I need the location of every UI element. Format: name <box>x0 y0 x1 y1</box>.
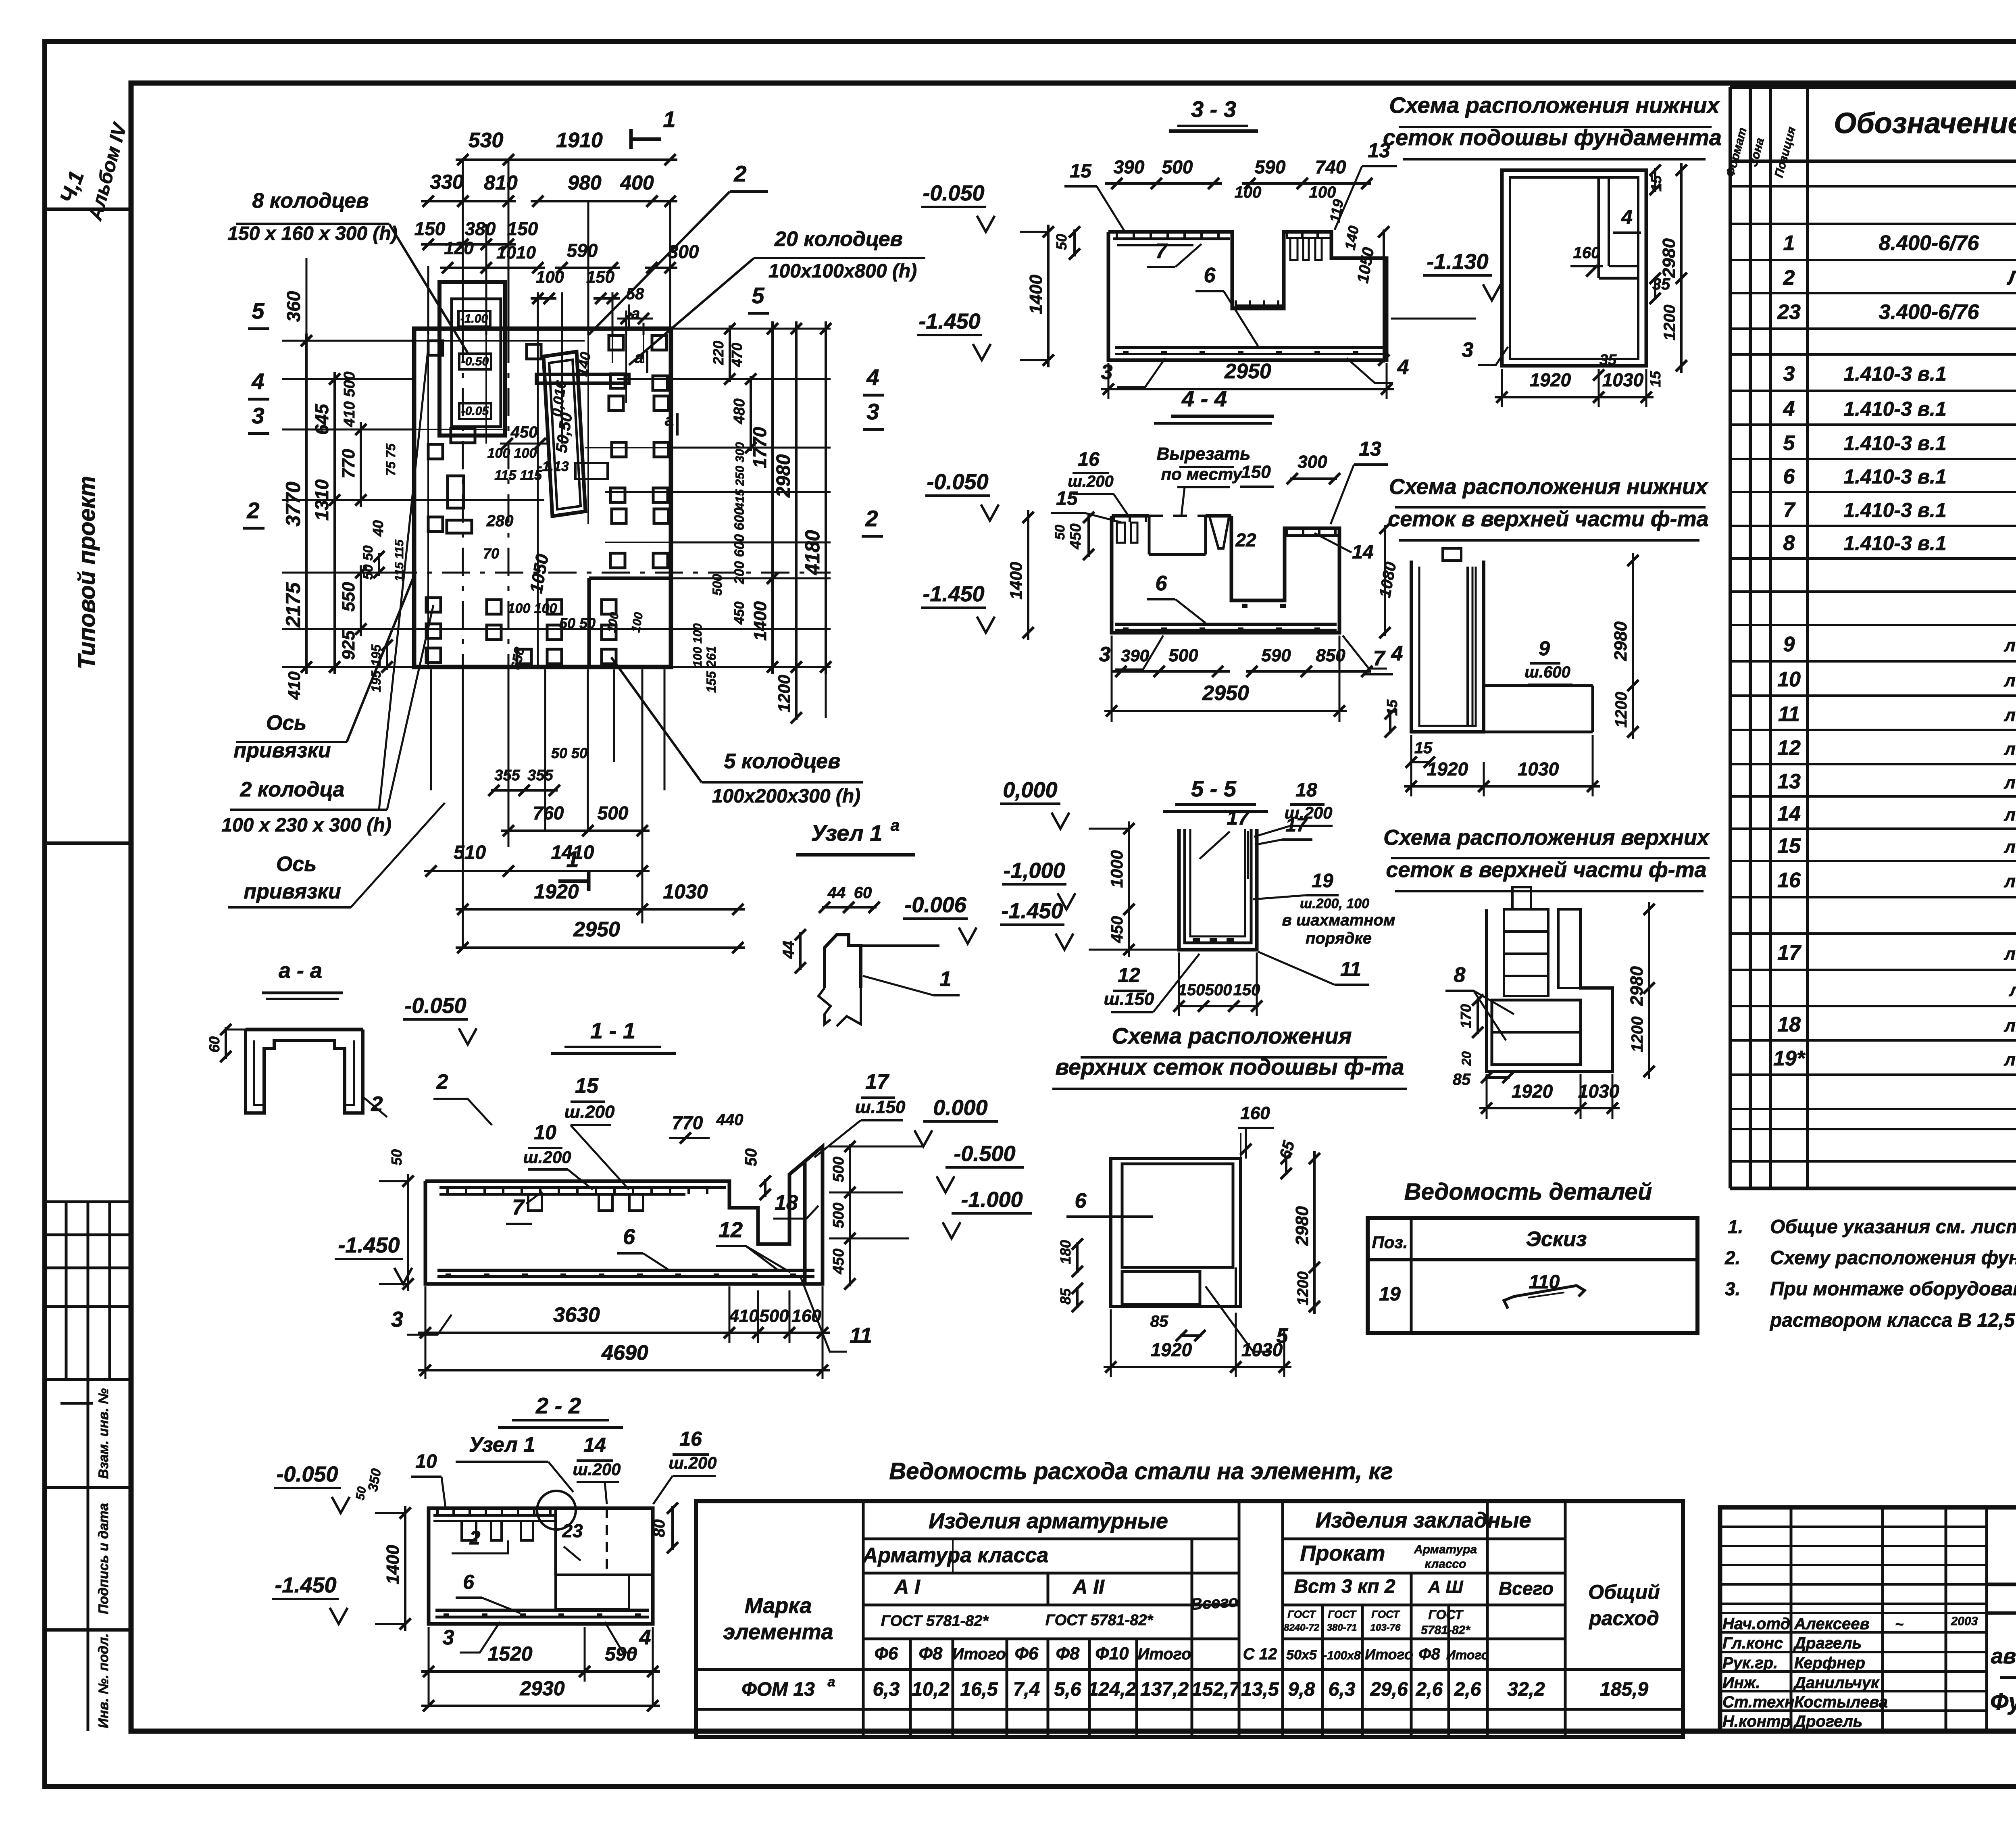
svg-text:6: 6 <box>1204 264 1216 287</box>
svg-text:137,2: 137,2 <box>1140 1679 1189 1700</box>
svg-text:4: 4 <box>1621 206 1633 228</box>
svg-text:3: 3 <box>443 1626 454 1649</box>
svg-text:15: 15 <box>575 1074 599 1098</box>
svg-text:Итого: Итого <box>952 1645 1006 1663</box>
svg-text:-0.050: -0.050 <box>276 1462 338 1486</box>
svg-text:160: 160 <box>1240 1103 1270 1123</box>
svg-text:-1.000: -1.000 <box>961 1188 1023 1212</box>
svg-text:18: 18 <box>1295 779 1317 801</box>
svg-text:355: 355 <box>494 767 520 784</box>
svg-text:380: 380 <box>465 218 496 239</box>
svg-text:Поз.: Поз. <box>1372 1233 1408 1252</box>
svg-text:а: а <box>665 411 674 429</box>
svg-text:29,6: 29,6 <box>1370 1679 1408 1700</box>
svg-text:100 100: 100 100 <box>487 446 537 461</box>
svg-text:2: 2 <box>246 498 259 523</box>
svg-text:1.410-3 в.1: 1.410-3 в.1 <box>1843 398 1946 420</box>
section 3-3 bottom dim <box>1108 363 1110 399</box>
svg-text:645: 645 <box>311 403 332 435</box>
svg-text:сеток в верхней части ф-та: сеток в верхней части ф-та <box>1388 507 1708 531</box>
svg-text:Драгель: Драгель <box>1793 1634 1862 1652</box>
svg-text:раствором класса В 12,5 толщин: раствором класса В 12,5 толщиной 50мм <box>1769 1310 2016 1331</box>
svg-text:100х100х800 (h): 100х100х800 (h) <box>768 261 917 282</box>
svg-text:а: а <box>891 817 900 834</box>
svg-text:Костылева: Костылева <box>1794 1693 1888 1711</box>
svg-text:60: 60 <box>854 884 872 902</box>
svg-text:6: 6 <box>623 1225 635 1249</box>
svg-text:Итого: Итого <box>1365 1646 1413 1663</box>
svg-text:Н.контр: Н.контр <box>1722 1713 1791 1730</box>
svg-text:0.000: 0.000 <box>933 1096 987 1120</box>
svg-text:Дрогель: Дрогель <box>1793 1713 1862 1730</box>
svg-text:автомобильных шин: автомобильных шин <box>1991 1644 2016 1668</box>
svg-text:124,2: 124,2 <box>1088 1679 1136 1700</box>
svg-text:9,8: 9,8 <box>1288 1679 1315 1700</box>
sidebar stamp column <box>45 208 131 211</box>
svg-text:300: 300 <box>668 241 699 262</box>
svg-text:Изделия арматурные: Изделия арматурные <box>929 1509 1168 1533</box>
svg-text:ш.600: ш.600 <box>1524 663 1570 681</box>
svg-text:Общий: Общий <box>1588 1581 1660 1603</box>
svg-text:1920: 1920 <box>1151 1339 1192 1360</box>
sidebar cells Взам инв / Подпись и дата / Инв № подл <box>45 1378 131 1381</box>
svg-text:150 х 160 х 300 (h): 150 х 160 х 300 (h) <box>227 223 398 244</box>
svg-text:3630: 3630 <box>553 1303 600 1327</box>
svg-text:2950: 2950 <box>1224 360 1271 383</box>
title block TP number <box>1987 1583 2016 1586</box>
svg-text:1910: 1910 <box>556 129 603 152</box>
svg-text:ГОСТ 5781-82*: ГОСТ 5781-82* <box>1045 1612 1154 1629</box>
section 5-5 bottom dims <box>1178 952 1180 1016</box>
svg-text:4: 4 <box>251 369 264 394</box>
svg-text:450: 450 <box>510 423 538 441</box>
svg-text:3: 3 <box>1101 361 1113 384</box>
svg-text:150: 150 <box>1233 981 1260 999</box>
svg-text:С 12: С 12 <box>1243 1645 1277 1663</box>
svg-text:185,9: 185,9 <box>1600 1679 1648 1700</box>
svg-text:ш.150: ш.150 <box>855 1097 906 1117</box>
svg-text:-0.050: -0.050 <box>404 994 466 1018</box>
svg-text:550: 550 <box>339 582 358 612</box>
svg-text:10: 10 <box>534 1121 556 1144</box>
svg-text:1030: 1030 <box>1241 1339 1283 1360</box>
svg-text:3.400-6/76: 3.400-6/76 <box>1879 300 1980 324</box>
svg-text:18: 18 <box>1777 1013 1801 1036</box>
section 4-4 levels <box>925 494 990 497</box>
svg-text:103-76: 103-76 <box>1370 1622 1401 1633</box>
svg-text:8 колодцев: 8 колодцев <box>252 189 369 213</box>
svg-text:50: 50 <box>388 1149 405 1165</box>
svg-text:23: 23 <box>562 1520 583 1541</box>
svg-text:2.: 2. <box>1724 1247 1740 1268</box>
section 1-1 levels left <box>403 1018 468 1021</box>
svg-text:-0.050: -0.050 <box>927 470 988 494</box>
svg-text:740: 740 <box>1315 156 1346 177</box>
svg-text:12: 12 <box>1777 736 1801 760</box>
svg-text:-1,000: -1,000 <box>1003 859 1065 883</box>
section 3-3 body <box>1108 232 1387 360</box>
section 5-5 levels <box>1000 802 1060 805</box>
svg-text:1920: 1920 <box>1512 1081 1553 1102</box>
svg-text:590: 590 <box>567 240 598 261</box>
svg-text:500: 500 <box>830 1203 847 1228</box>
svg-text:50: 50 <box>353 1486 369 1501</box>
svg-text:50: 50 <box>1053 234 1070 250</box>
svg-text:1920: 1920 <box>1530 369 1571 390</box>
svg-text:150: 150 <box>507 218 538 239</box>
svg-text:9: 9 <box>1783 633 1795 656</box>
svg-text:50 50: 50 50 <box>360 545 376 579</box>
svg-text:Ось: Ось <box>276 852 317 876</box>
svg-text:2980: 2980 <box>1627 966 1647 1006</box>
section 3-3 levels <box>921 206 986 208</box>
svg-text:Схему расположения фундаментов: Схему расположения фундаментов см. лист … <box>1770 1247 2016 1269</box>
svg-text:200: 200 <box>732 561 747 585</box>
svg-text:14: 14 <box>1777 802 1801 825</box>
svg-text:1.410-3 в.1: 1.410-3 в.1 <box>1843 432 1946 454</box>
svg-text:Ф6: Ф6 <box>875 1644 898 1663</box>
svg-text:450: 450 <box>830 1248 847 1274</box>
svg-text:Узел 1: Узел 1 <box>469 1433 535 1457</box>
svg-text:ш.200: ш.200 <box>523 1148 571 1167</box>
svg-text:3 - 3: 3 - 3 <box>1191 96 1236 122</box>
svg-text:1 - 1: 1 - 1 <box>590 1018 635 1043</box>
svg-text:2 колодца: 2 колодца <box>240 778 345 801</box>
svg-text:500: 500 <box>1205 981 1232 999</box>
svg-text:л.23: л.23 <box>2004 1016 2016 1036</box>
svg-text:Узел 1: Узел 1 <box>811 820 883 846</box>
svg-text:330: 330 <box>430 171 464 193</box>
svg-text:12: 12 <box>1118 964 1140 986</box>
svg-text:0,000: 0,000 <box>1003 778 1057 802</box>
svg-text:6: 6 <box>1783 465 1795 488</box>
svg-text:16: 16 <box>679 1428 702 1450</box>
svg-text:40: 40 <box>370 520 386 537</box>
svg-text:1400: 1400 <box>750 601 770 641</box>
svg-text:60: 60 <box>206 1036 223 1052</box>
svg-text:2,6: 2,6 <box>1416 1679 1443 1700</box>
svg-text:120: 120 <box>444 238 474 258</box>
svg-text:-1.00: -1.00 <box>460 312 488 325</box>
svg-text:20: 20 <box>1459 1051 1474 1066</box>
svg-text:410: 410 <box>729 1306 759 1326</box>
svg-text:85: 85 <box>1057 1288 1074 1305</box>
svg-text:70: 70 <box>483 545 499 562</box>
svg-text:5,6: 5,6 <box>1054 1679 1081 1700</box>
svg-text:1.410-3 в.1: 1.410-3 в.1 <box>1843 532 1946 554</box>
svg-text:Ф6: Ф6 <box>1015 1644 1039 1663</box>
svg-text:1.410-3 в.1: 1.410-3 в.1 <box>1843 465 1946 488</box>
svg-text:150: 150 <box>414 218 446 239</box>
svg-text:Схема расположения нижних: Схема расположения нижних <box>1389 475 1708 499</box>
svg-text:2: 2 <box>865 506 878 531</box>
svg-text:элемента: элемента <box>723 1620 833 1644</box>
uzel 1a detail <box>825 935 861 988</box>
svg-text:Всего: Всего <box>1190 1592 1239 1613</box>
section 1-1 body <box>425 1161 805 1284</box>
svg-text:1920: 1920 <box>534 880 579 903</box>
vedomost detaley table <box>1368 1218 1697 1333</box>
svg-text:л.23: л.23 <box>2004 705 2016 725</box>
svg-text:810: 810 <box>484 171 518 194</box>
svg-text:ш.150: ш.150 <box>1104 989 1154 1009</box>
svg-text:6,3: 6,3 <box>1329 1679 1356 1700</box>
svg-text:ГОСТ: ГОСТ <box>1287 1608 1316 1620</box>
svg-text:-0.006: -0.006 <box>904 893 966 917</box>
svg-text:100 100: 100 100 <box>508 601 557 616</box>
svg-text:13,5: 13,5 <box>1241 1679 1279 1700</box>
svg-text:355: 355 <box>527 767 553 784</box>
svg-text:классо: классо <box>1425 1557 1466 1571</box>
svg-text:Подпись и дата: Подпись и дата <box>96 1503 111 1614</box>
svg-text:17: 17 <box>1227 807 1250 829</box>
plan right dimension chains <box>671 328 831 330</box>
svg-text:а: а <box>828 1674 835 1690</box>
svg-text:Прокат: Прокат <box>1300 1541 1385 1565</box>
svg-text:1: 1 <box>663 106 675 132</box>
svg-text:510: 510 <box>454 842 486 863</box>
svg-text:ш.200: ш.200 <box>564 1102 615 1122</box>
svg-text:1: 1 <box>940 967 952 991</box>
svg-text:2950: 2950 <box>573 918 620 941</box>
svg-text:ГОСТ: ГОСТ <box>1328 1608 1357 1620</box>
svg-text:Арматура: Арматура <box>1414 1543 1477 1556</box>
schema 4 diagram <box>1111 1159 1241 1307</box>
svg-text:5781-82*: 5781-82* <box>1421 1624 1470 1637</box>
svg-text:Вст 3 кп 2: Вст 3 кп 2 <box>1294 1576 1395 1597</box>
svg-text:470: 470 <box>729 343 745 367</box>
svg-text:6: 6 <box>1075 1189 1087 1213</box>
svg-text:450: 450 <box>1067 523 1084 549</box>
svg-text:3: 3 <box>1462 338 1474 362</box>
svg-text:44: 44 <box>780 941 798 959</box>
svg-text:160: 160 <box>1573 244 1600 262</box>
section 4-4 funnel 22 <box>1210 517 1229 548</box>
svg-text:2980: 2980 <box>773 454 794 498</box>
svg-text:-100х8: -100х8 <box>1323 1649 1361 1662</box>
section 2-2 bottom mesh <box>435 1609 649 1612</box>
svg-text:2003: 2003 <box>1951 1615 1978 1628</box>
svg-text:2 - 2: 2 - 2 <box>535 1393 581 1418</box>
svg-text:Нач.отд: Нач.отд <box>1722 1615 1790 1633</box>
svg-text:1030: 1030 <box>663 880 708 903</box>
svg-text:а - а: а - а <box>279 959 322 983</box>
svg-text:44: 44 <box>827 884 846 902</box>
svg-text:А II: А II <box>1072 1576 1105 1598</box>
svg-text:1030: 1030 <box>1518 759 1559 779</box>
section 4-4 meshes <box>1112 517 1115 522</box>
svg-text:3: 3 <box>1099 643 1111 666</box>
svg-text:1920: 1920 <box>1427 759 1468 779</box>
svg-text:3: 3 <box>866 399 879 424</box>
svg-text:15: 15 <box>1777 834 1801 858</box>
svg-text:8: 8 <box>1454 963 1466 987</box>
svg-text:ш.200: ш.200 <box>573 1460 621 1479</box>
section 4-4 body <box>1112 516 1339 633</box>
svg-text:-0.500: -0.500 <box>954 1142 1015 1166</box>
svg-text:2175: 2175 <box>282 582 304 627</box>
svg-text:22: 22 <box>1235 529 1256 550</box>
svg-text:5: 5 <box>252 298 264 323</box>
svg-text:17: 17 <box>1285 815 1308 836</box>
svg-text:-1.450: -1.450 <box>918 309 980 333</box>
svg-text:-0.50: -0.50 <box>461 355 489 368</box>
svg-text:2,6: 2,6 <box>1454 1679 1481 1700</box>
svg-text:19*: 19* <box>1773 1047 1806 1070</box>
svg-text:100х200х300 (h): 100х200х300 (h) <box>712 786 860 807</box>
svg-text:-1.450: -1.450 <box>338 1233 400 1257</box>
svg-text:в шахматном: в шахматном <box>1282 911 1395 929</box>
svg-text:1.410-3 в.1: 1.410-3 в.1 <box>1843 499 1946 521</box>
svg-text:1400: 1400 <box>383 1545 403 1584</box>
schema 3 diagram <box>1487 909 1612 1071</box>
svg-text:4: 4 <box>1783 397 1795 421</box>
svg-text:2: 2 <box>733 161 746 186</box>
svg-text:155 261: 155 261 <box>704 646 719 693</box>
svg-text:16: 16 <box>1078 449 1100 470</box>
svg-text:привязки: привязки <box>244 880 341 903</box>
svg-text:80: 80 <box>650 1519 668 1538</box>
svg-text:сеток в верхней части ф-та: сеток в верхней части ф-та <box>1386 858 1706 882</box>
svg-text:-0.05: -0.05 <box>461 404 489 418</box>
svg-text:1030: 1030 <box>1602 369 1644 390</box>
svg-text:11: 11 <box>1340 958 1361 980</box>
svg-text:410 500: 410 500 <box>341 371 358 427</box>
svg-text:3.: 3. <box>1725 1278 1740 1299</box>
svg-text:Л23: Л23 <box>2007 267 2016 289</box>
svg-text:1400: 1400 <box>1006 562 1025 599</box>
svg-text:35: 35 <box>1599 352 1617 369</box>
svg-text:50 50: 50 50 <box>551 745 587 761</box>
svg-text:1200: 1200 <box>775 675 793 712</box>
svg-text:2: 2 <box>436 1070 448 1094</box>
svg-text:760: 760 <box>533 802 564 823</box>
svg-text:Данильчук: Данильчук <box>1793 1674 1880 1692</box>
svg-text:Арматура класса: Арматура класса <box>862 1544 1049 1567</box>
svg-text:2: 2 <box>1783 266 1795 290</box>
svg-text:300: 300 <box>1297 452 1327 472</box>
svg-text:л.23: л.23 <box>2004 773 2016 792</box>
svg-text:480: 480 <box>731 398 748 424</box>
svg-text:порядке: порядке <box>1306 930 1372 947</box>
svg-text:Типовой проект: Типовой проект <box>74 476 100 669</box>
svg-text:16: 16 <box>1777 869 1801 892</box>
svg-text:150: 150 <box>1178 981 1205 999</box>
svg-text:2950: 2950 <box>1202 681 1249 705</box>
svg-text:6: 6 <box>1156 572 1168 595</box>
plan bottom dimension chains <box>430 669 432 790</box>
svg-text:925: 925 <box>339 630 358 660</box>
svg-text:Ось: Ось <box>266 711 306 735</box>
svg-text:590: 590 <box>605 1644 637 1665</box>
svg-text:-1.130: -1.130 <box>1427 250 1488 274</box>
svg-text:л.23: л.23 <box>2004 739 2016 759</box>
svg-text:32,2: 32,2 <box>1507 1679 1545 1700</box>
svg-text:100 100: 100 100 <box>691 623 704 667</box>
svg-text:1200: 1200 <box>1295 1271 1312 1306</box>
svg-text:13: 13 <box>1777 770 1801 793</box>
svg-text:530: 530 <box>469 129 504 152</box>
svg-text:500: 500 <box>710 574 725 596</box>
svg-text:4 - 4: 4 - 4 <box>1181 386 1227 411</box>
svg-text:л.23: л.23 <box>2004 837 2016 857</box>
svg-text:16,5: 16,5 <box>960 1679 998 1700</box>
specification table grid <box>1729 87 1732 1188</box>
title block project name <box>1987 1611 2016 1615</box>
svg-text:11: 11 <box>1778 702 1800 726</box>
svg-text:440: 440 <box>716 1111 744 1129</box>
svg-text:Ф10: Ф10 <box>1095 1644 1129 1663</box>
svg-text:8240-72: 8240-72 <box>1284 1622 1320 1633</box>
section 2-2 top rebar <box>433 1514 556 1517</box>
svg-text:Схема расположения нижних: Схема расположения нижних <box>1389 92 1720 118</box>
svg-text:50: 50 <box>742 1148 760 1167</box>
steel consumption table <box>696 1501 1683 1737</box>
svg-text:1000: 1000 <box>1107 850 1126 888</box>
svg-text:500: 500 <box>1162 156 1193 177</box>
svg-text:10: 10 <box>1777 668 1801 691</box>
svg-text:1200: 1200 <box>1629 1017 1646 1052</box>
svg-text:-1.450: -1.450 <box>1001 899 1063 923</box>
svg-text:Инв. №. подл.: Инв. №. подл. <box>96 1633 111 1728</box>
svg-text:8.400-6/76: 8.400-6/76 <box>1879 231 1980 255</box>
plan top-left pit structure <box>439 282 505 436</box>
svg-text:5 колодцев: 5 колодцев <box>724 750 841 773</box>
svg-text:5: 5 <box>752 283 764 308</box>
svg-text:верхних сеток подошвы ф-та: верхних сеток подошвы ф-та <box>1055 1054 1404 1080</box>
svg-text:17: 17 <box>1777 941 1801 965</box>
svg-text:Керфнер: Керфнер <box>1794 1654 1865 1672</box>
svg-text:1520: 1520 <box>487 1642 532 1665</box>
svg-text:500: 500 <box>759 1306 789 1326</box>
svg-text:50х5: 50х5 <box>1286 1647 1317 1663</box>
svg-text:-1.450: -1.450 <box>923 582 984 606</box>
svg-text:л.23: л.23 <box>2004 636 2016 655</box>
section 2-2 levels <box>274 1487 341 1489</box>
svg-text:23: 23 <box>1777 300 1801 324</box>
svg-text:Итого: Итого <box>1137 1645 1191 1663</box>
svg-text:15: 15 <box>1070 160 1092 182</box>
svg-text:450: 450 <box>1108 916 1126 944</box>
svg-text:ГОСТ: ГОСТ <box>1371 1608 1400 1620</box>
section 1-1 bottom dims <box>425 1286 427 1379</box>
svg-text:А Ш: А Ш <box>1427 1577 1463 1597</box>
svg-text:Итого: Итого <box>1446 1648 1489 1662</box>
svg-text:1: 1 <box>1783 231 1795 255</box>
svg-text:10: 10 <box>415 1451 437 1472</box>
plan outline <box>414 329 671 667</box>
svg-text:150: 150 <box>1241 462 1271 482</box>
section 1-1 bottom mesh <box>437 1269 814 1272</box>
svg-text:-1.450: -1.450 <box>275 1573 336 1597</box>
svg-text:л23: л23 <box>2009 980 2016 1000</box>
svg-text:Ф8: Ф8 <box>919 1644 943 1663</box>
svg-text:100 х 230 х 300 (h): 100 х 230 х 300 (h) <box>221 815 392 836</box>
svg-text:сеток подошвы фундамента: сеток подошвы фундамента <box>1383 125 1722 150</box>
plan section marks <box>631 138 661 141</box>
svg-text:400: 400 <box>620 171 654 194</box>
svg-text:1: 1 <box>566 846 579 872</box>
svg-text:500: 500 <box>1168 646 1198 665</box>
svg-text:расход: расход <box>1588 1607 1659 1630</box>
svg-text:75 75: 75 75 <box>383 443 398 476</box>
svg-text:152,7: 152,7 <box>1191 1679 1241 1700</box>
svg-text:7: 7 <box>1156 240 1168 263</box>
svg-text:3770: 3770 <box>282 481 304 526</box>
svg-text:Всего: Всего <box>1499 1578 1554 1599</box>
section 2-2 bottom dims <box>428 1627 430 1706</box>
svg-text:360: 360 <box>283 291 304 322</box>
